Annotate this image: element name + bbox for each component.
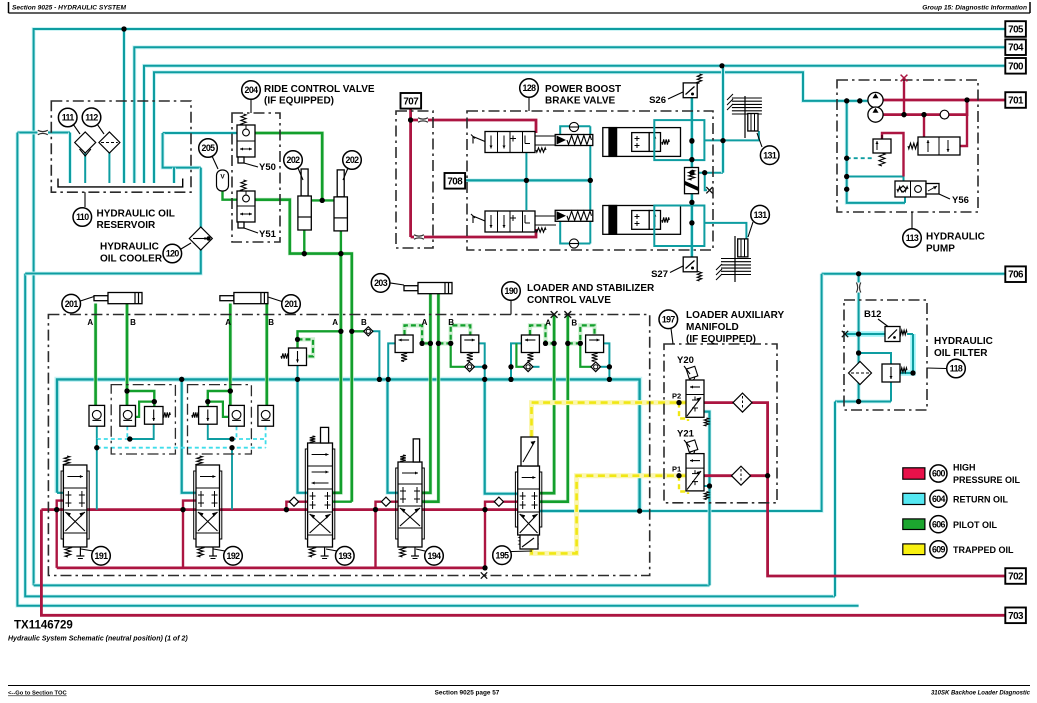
wire cyl202b rod drop (340, 231, 342, 254)
pressure reducing valve pump (873, 139, 891, 153)
wire bypass drop (890, 382, 892, 402)
wire sec195 anticav dots (508, 364, 513, 369)
wire Y21 return stub (704, 485, 710, 487)
line break symbol reservoir inlet (38, 130, 49, 135)
spring box upper (555, 135, 593, 146)
connector 704 (1005, 39, 1026, 55)
plugged port B X v195 (564, 311, 571, 318)
svg-text:Hydraulic System Schematic (ne: Hydraulic System Schematic (neutral posi… (8, 635, 188, 642)
svg-text:B: B (268, 318, 274, 327)
quick coupler Y21 (732, 466, 751, 485)
callout 191 (81, 549, 93, 551)
callout 193 (326, 549, 337, 551)
check valve brake upper (569, 122, 578, 131)
wire master cyl lower line (704, 223, 746, 239)
wire high pressure to 703 left riser (41, 510, 1005, 616)
wire reservoir drop from 705 line (122, 29, 126, 183)
svg-text:194: 194 (428, 551, 442, 561)
ride control valve box 204 (232, 113, 280, 242)
svg-text:202: 202 (346, 155, 360, 165)
callout 194 (416, 549, 425, 551)
wire sec192 relief drop (208, 424, 232, 439)
wire relief bottom dot (689, 200, 694, 205)
wire relief195B hook (568, 325, 595, 343)
svg-text:Y50: Y50 (259, 162, 276, 173)
wire sec192 sq hook (208, 402, 228, 417)
wire manifold dots (179, 377, 184, 382)
inner dashed box sec191 (111, 385, 175, 454)
plugged vent X (901, 75, 908, 82)
wire main supply line (41, 508, 517, 511)
svg-text:P2: P2 (672, 392, 681, 401)
wire bypass side riser (900, 334, 913, 373)
wire v195 port A (540, 315, 555, 494)
wire Y50 pilot out (255, 133, 322, 200)
wire cyl201b port B (265, 304, 269, 406)
svg-text:197: 197 (662, 314, 676, 324)
filter element 118 (849, 362, 872, 385)
brake spool upper (485, 132, 535, 153)
wire sec192 dashed a (232, 438, 266, 440)
inner dashed box sec192 (188, 385, 252, 454)
brake assembly lower 131 (721, 258, 751, 260)
control valve spool 193 (305, 449, 335, 539)
wire tank inlet drop x70 (68, 133, 72, 184)
svg-text:(IF EQUIPPED): (IF EQUIPPED) (686, 334, 756, 345)
wire return to 706 (822, 272, 1005, 276)
legend callout 609 (930, 541, 947, 558)
svg-text:HYDRAULIC OIL: HYDRAULIC OIL (97, 209, 175, 220)
svg-text:POWER BOOST: POWER BOOST (545, 84, 621, 95)
svg-text:A: A (332, 318, 338, 327)
svg-text:120: 120 (166, 249, 180, 259)
wire cooler feed down (199, 168, 203, 231)
wire dashed LS line (847, 157, 873, 159)
svg-text:HIGH: HIGH (953, 463, 976, 473)
callout 112 (82, 108, 101, 127)
svg-text:PILOT OIL: PILOT OIL (953, 520, 998, 530)
wire relief194B hook (438, 325, 470, 343)
line break filter (856, 283, 861, 293)
control valve spool 191 (61, 471, 89, 539)
svg-text:600: 600 (932, 469, 946, 479)
svg-text:702: 702 (1008, 572, 1024, 583)
wire S26 to S27 vertical (690, 98, 694, 263)
wire sec195 anticav teal (533, 366, 540, 368)
wire trapped P2 dot (676, 400, 681, 405)
svg-text:A: A (87, 318, 93, 327)
control valve spool 192 (194, 471, 222, 539)
wire reservoir inlet left (17, 131, 70, 135)
legend return swatch 604 (903, 493, 925, 504)
cylinder 201 a (94, 296, 108, 301)
accumulator 205 (217, 170, 229, 191)
wire relief194B hook dots (436, 341, 441, 346)
switch S27 (683, 257, 697, 272)
svg-text:707: 707 (403, 96, 419, 107)
wire compensator feed dot (921, 112, 926, 117)
wire brake spool lower rise (525, 180, 527, 210)
solenoid valve Y20 (686, 380, 704, 417)
wire valve195 right return (540, 509, 640, 513)
callout 201 b (282, 295, 301, 314)
wire sec192 hook dot (205, 399, 210, 404)
wire return line to 704 (134, 47, 1005, 183)
anti-cavitation check 195A (523, 362, 533, 372)
wire reservoir to ride control y133 (163, 131, 237, 135)
connector 700 (1005, 58, 1026, 74)
inlet check 194 (381, 497, 390, 506)
svg-text:A: A (545, 319, 551, 328)
wire relief vent crimson (882, 133, 904, 177)
svg-text:110: 110 (76, 212, 89, 222)
wire sec191 dot (127, 436, 132, 441)
wire sec191 relief drop (130, 424, 154, 439)
port relief 195B (586, 335, 604, 353)
wire pump outlet high pressure to 701 (883, 99, 1005, 102)
svg-text:604: 604 (932, 494, 946, 504)
wire sec192 relief feed dot (228, 388, 233, 393)
wire sec195 anticav2 teal (600, 366, 609, 368)
wire Y21 return dot (707, 483, 712, 488)
callout 190 (502, 282, 521, 301)
cylinder 202 a (301, 169, 308, 196)
wire 708 pilot line (465, 178, 593, 182)
wire 708 dots (524, 178, 529, 183)
aux manifold box 197 (664, 344, 777, 503)
wire v193 comp drain (297, 366, 299, 380)
callout 111 (58, 108, 77, 127)
svg-text:OIL COOLER: OIL COOLER (100, 254, 163, 265)
callout 120 (163, 244, 182, 263)
wire cyl202a rod drop (303, 230, 305, 254)
wire sec194 anticav green (451, 343, 465, 366)
svg-text:609: 609 (932, 545, 946, 555)
filter 112 (99, 132, 120, 153)
wire v193 B check (352, 330, 364, 332)
svg-text:PRESSURE OIL: PRESSURE OIL (953, 475, 1021, 485)
wire v195 supply stub2 (503, 501, 517, 503)
plugged X bottom (481, 572, 487, 578)
wire strainer 112 drop (108, 152, 110, 183)
wire pump inlet junction dots (844, 98, 849, 103)
svg-text:PUMP: PUMP (926, 244, 955, 255)
brake assembly upper 131 (732, 97, 762, 99)
pump element 1 (868, 92, 883, 107)
switch S26 (683, 83, 697, 98)
connector 707 (401, 93, 422, 109)
wire pump2 check to riser (948, 100, 967, 115)
wire dot mc upper (689, 157, 694, 162)
wire sec191 checkA drop (96, 426, 98, 439)
svg-text:B12: B12 (864, 309, 881, 320)
line break 707a (418, 118, 428, 123)
teal box lower (654, 206, 704, 247)
wire sec195 anticav green (516, 343, 523, 366)
port relief 194A (395, 335, 413, 353)
plugged port A X v195 (551, 311, 558, 318)
wire trapped P1 line (532, 476, 687, 554)
svg-text:128: 128 (523, 83, 537, 93)
wire v193 comp dot (338, 329, 343, 334)
svg-text:310SK Backhoe Loader Diagnosti: 310SK Backhoe Loader Diagnostic (931, 691, 1031, 697)
wire brake supply lower (411, 229, 536, 237)
svg-text:(IF EQUIPPED): (IF EQUIPPED) (264, 96, 334, 107)
wire B12 sensor line (845, 331, 885, 337)
wire v194 supply dot (373, 507, 378, 512)
connector 706 (1005, 266, 1026, 282)
svg-text:701: 701 (1008, 96, 1024, 107)
wire return from reservoir line down left side (17, 133, 858, 606)
svg-text:TX1146729: TX1146729 (14, 620, 73, 632)
svg-text:LOADER AUXILIARY: LOADER AUXILIARY (686, 310, 784, 321)
wire v193 supply stub (286, 502, 290, 510)
svg-text:S26: S26 (649, 95, 666, 106)
svg-text:Section 9025 page 57: Section 9025 page 57 (435, 690, 500, 697)
svg-text:203: 203 (374, 278, 388, 288)
wire plugged port stub (705, 173, 707, 191)
wire v191 supply stub (57, 501, 64, 568)
svg-text:606: 606 (932, 519, 946, 529)
svg-text:191: 191 (95, 551, 109, 561)
port relief 191 (145, 407, 164, 425)
wire trapped P1 dot (676, 473, 681, 478)
svg-text:704: 704 (1008, 43, 1024, 54)
solenoid valve Y50 (237, 125, 255, 157)
inlet check 193 (289, 497, 298, 506)
brake spool lower (485, 211, 535, 232)
svg-text:706: 706 (1008, 270, 1024, 281)
wire cylinder link 202 (312, 199, 334, 201)
wire relief195A hook dots (543, 341, 548, 346)
anti-cavitation check 194 (465, 362, 475, 372)
cylinder 201 b (220, 296, 234, 301)
port relief 192 (199, 407, 218, 425)
wire return line to 700 (144, 66, 1005, 183)
wire cyl203 port A (422, 294, 430, 493)
svg-text:RETURN OIL: RETURN OIL (953, 495, 1009, 505)
wire pump drain dots (844, 156, 849, 161)
wire pump2 outlet (883, 113, 941, 116)
svg-text:LOADER AND STABILIZER: LOADER AND STABILIZER (527, 283, 655, 294)
plugged port X (706, 187, 712, 193)
svg-text:Y56: Y56 (952, 195, 969, 206)
wire v192 supply dot (180, 507, 185, 512)
connector 702 (1005, 568, 1026, 584)
svg-text:131: 131 (754, 210, 768, 220)
wire sec195 anticav2 green (580, 343, 591, 366)
svg-text:700: 700 (1008, 61, 1024, 72)
svg-text:V: V (220, 174, 225, 181)
pressure sensor B12 (885, 327, 900, 342)
wire sec192 checkB drop (265, 426, 267, 448)
master cylinder upper (603, 128, 681, 157)
wire relief194B out (479, 343, 484, 379)
svg-text:MANIFOLD: MANIFOLD (686, 322, 739, 333)
bypass valve filter (882, 364, 900, 382)
callout 202 b (343, 151, 362, 170)
svg-text:TRAPPED OIL: TRAPPED OIL (953, 545, 1014, 555)
svg-text:B: B (361, 318, 367, 327)
wire brake spool loop upper (560, 126, 590, 135)
junction dot top 705 line (121, 26, 126, 31)
solenoid valve Y51 (237, 191, 255, 222)
wire v195 supply dot (482, 507, 487, 512)
check valve 191A (89, 405, 105, 426)
wire compensator feed (923, 115, 925, 137)
teal box upper (654, 120, 704, 160)
legend callout 606 (930, 516, 947, 533)
wire Y20 out2 to riser (752, 403, 1005, 576)
wire v194 supply stub2 (391, 501, 398, 503)
wire cooler outlet to left (25, 246, 201, 274)
wire v193 comp hook (298, 339, 314, 356)
callout 131 lower (751, 205, 770, 224)
wire teal to Y56 valve top (847, 177, 904, 182)
wire cyl201a port B (125, 304, 129, 406)
wire valve195 return drop (485, 379, 518, 493)
tank outline (58, 179, 183, 187)
wire Y56 valve bottom riser (904, 197, 906, 203)
wire valve194 return drop (388, 379, 399, 492)
legend high pressure swatch 600 (903, 468, 925, 479)
master cylinder lower (603, 206, 681, 235)
check valve 191B (120, 405, 136, 426)
control valve spool 195 (515, 472, 541, 527)
wire dot s26 branch a (689, 170, 694, 175)
wire cyl201a port A (94, 304, 98, 406)
svg-text:703: 703 (1008, 611, 1024, 622)
svg-text:Y20: Y20 (677, 355, 694, 366)
wire trapped P2 line (532, 403, 687, 437)
junction dot 700 line x722 (719, 63, 724, 68)
wire accumulator link (223, 190, 238, 200)
check valve 193B (364, 327, 373, 336)
legend callout 600 (930, 465, 947, 482)
callout 131 upper (760, 146, 779, 165)
cylinder 203 (404, 286, 418, 291)
callout 201 a (62, 294, 81, 313)
connector 703 (1005, 608, 1026, 624)
svg-text:112: 112 (85, 112, 98, 122)
callout 203 (371, 274, 390, 293)
svg-text:HYDRAULIC: HYDRAULIC (934, 336, 993, 347)
callout 118 (927, 367, 946, 370)
wire brake line upper (704, 131, 759, 140)
wire brake loop right vert (589, 126, 591, 243)
callout 204 (242, 81, 261, 100)
wire pump case drain vertical (847, 101, 905, 203)
wire S26 branch to tank line (692, 172, 723, 174)
flow compensator 193 (289, 348, 307, 366)
wire v193 comp feed (298, 331, 341, 348)
check valve brake lower (569, 239, 578, 248)
wire relief194A hook dots (420, 341, 425, 346)
wire relief195A out (511, 343, 521, 379)
svg-text:Group 15: Diagnostic Informati: Group 15: Diagnostic Information (922, 5, 1027, 12)
wire sec191 sq hook (135, 402, 155, 417)
legend callout 604 (930, 490, 947, 507)
wire sec191 valve drop (96, 448, 98, 510)
wire sec192 dot (229, 436, 234, 441)
wire Y21 out2 (750, 474, 768, 477)
wire tank inlet drop x174 (172, 168, 176, 183)
wire sec191 relief feed (127, 391, 154, 407)
wire Y21 riser dot (765, 473, 770, 478)
svg-text:S27: S27 (651, 269, 668, 280)
wire pilot A line v193 (333, 254, 341, 493)
wire v193 check to manifold (373, 331, 380, 379)
wire pump top vent dot (901, 112, 906, 117)
wire sec191 hook dot (152, 399, 157, 404)
quick coupler Y20 (733, 393, 752, 412)
plugged X filter (842, 331, 848, 337)
svg-text:RIDE CONTROL VALVE: RIDE CONTROL VALVE (264, 84, 375, 95)
wire pump top vent (903, 78, 905, 115)
control valve spool 194 (396, 468, 425, 539)
wire bypass top dot (856, 350, 861, 355)
svg-text:113: 113 (906, 233, 919, 243)
wire v193 B check dot (349, 329, 354, 334)
wire bypass top link (859, 353, 891, 364)
svg-text:204: 204 (245, 85, 259, 95)
svg-text:B: B (571, 319, 577, 328)
cylinder 202 b (337, 170, 344, 197)
wire sec191 checkB drop (126, 426, 128, 439)
relief valve brake center (685, 168, 699, 194)
compensator valve pump (918, 137, 960, 155)
svg-text:Y51: Y51 (259, 229, 277, 240)
wire relief194A out (388, 343, 395, 379)
wire pump outlet dot (964, 97, 969, 102)
svg-text:201: 201 (285, 299, 299, 309)
wire v195 port B (540, 315, 568, 502)
wire 707 dot (408, 117, 413, 122)
inlet check 195 (494, 497, 503, 506)
wire v195 supply stub (485, 502, 494, 568)
solenoid valve Y21 (686, 454, 704, 491)
wire supply loop lower (57, 567, 485, 570)
wire v191 supply dot (54, 507, 59, 512)
callout 202 a (284, 151, 303, 170)
svg-text:<--Go to Section TOC: <--Go to Section TOC (8, 691, 67, 697)
wire cyl201b port A (228, 304, 232, 406)
callout 110 (84, 192, 86, 207)
svg-text:131: 131 (763, 150, 777, 160)
svg-text:RESERVOIR: RESERVOIR (97, 220, 156, 231)
wire v193 supply dot (284, 507, 289, 512)
port relief 195A (521, 335, 539, 353)
wire bypass side stub (907, 333, 913, 335)
wire bypass side dot (910, 370, 915, 375)
wire return line to 705 (top) (34, 29, 1005, 585)
junction dots overlay (121, 26, 126, 31)
svg-text:192: 192 (227, 551, 241, 561)
svg-text:BRAKE VALVE: BRAKE VALVE (545, 96, 616, 107)
svg-text:A: A (422, 318, 428, 327)
svg-text:201: 201 (65, 299, 79, 309)
svg-text:OIL FILTER: OIL FILTER (934, 348, 988, 359)
wire relief194A hook (405, 325, 431, 343)
svg-text:705: 705 (1008, 25, 1024, 36)
header (8, 2, 10, 13)
check valve 192A (229, 405, 245, 426)
wire pilot B into v193 (333, 501, 352, 503)
707 dashed box (396, 111, 433, 248)
callout 197 (659, 310, 678, 329)
wire Y21 out (704, 474, 732, 477)
wire sec191 dashed a (97, 438, 130, 440)
